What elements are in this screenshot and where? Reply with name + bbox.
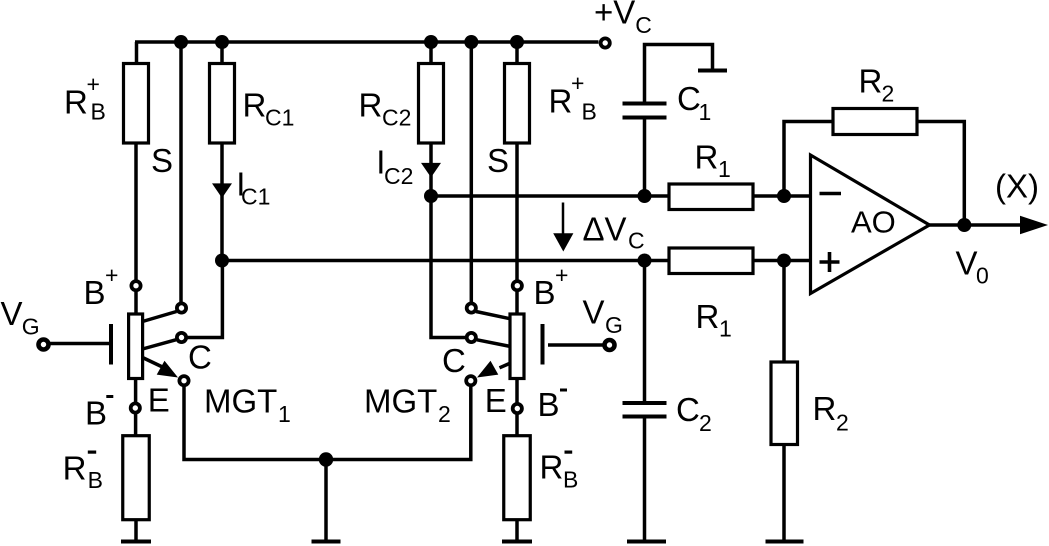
resistor RB+ left [124,64,149,144]
terminal VG left [39,340,49,350]
svg-text:B: B [88,467,103,493]
svg-text:C2: C2 [676,391,712,436]
svg-text:RC1: RC1 [243,87,295,131]
resistor RB+ right [505,64,530,144]
resistor RB- left [123,436,150,520]
ground RB- left [121,540,151,544]
svg-text:E: E [485,382,507,419]
wire MGT2 base minus [515,379,519,436]
wire C1 top to chassis stub [645,45,713,104]
svg-text:C: C [188,339,212,376]
wire R2 lower ground stub [782,445,786,542]
svg-text:R1: R1 [695,139,731,183]
chassis bar at C1 top [698,69,727,73]
wire MGT2 S connector [476,312,523,322]
node output V0 [957,218,971,232]
wire MGT1 S connector [143,312,177,322]
wire RB+ left bottom to MGT1 B+ [134,143,138,314]
pin MGT1 C [177,333,186,342]
wire common emitter ground stub [324,460,328,542]
wire RB+ left drop from rail [135,42,139,64]
wire C1 bottom to minus node [643,118,647,197]
svg-text:B: B [85,395,107,432]
resistor R1 upper [669,184,753,210]
arrow IC2 current [421,163,441,178]
node rail RC1 [215,35,229,49]
node RC2 collector junction [424,189,438,203]
pin MGT1 B+ [131,281,140,290]
arrow IC1 current [212,183,232,198]
wire minus line R1 to op-amp input [753,194,811,198]
svg-text:R: R [64,84,88,121]
resistor R2 feedback [833,109,917,135]
pin MGT2 S [467,303,476,312]
wire plus line node to R1 [222,259,669,263]
svg-text:B: B [84,274,106,311]
arrow MGT2 emitter [477,361,498,378]
wire feedback node up to R2 [784,122,833,197]
wire RB- left ground stub [134,520,138,542]
wire S1 column rail to S terminal [179,42,183,306]
svg-text:E: E [148,382,170,419]
svg-text:V0: V0 [956,245,989,289]
svg-text:RC2: RC2 [359,87,412,131]
svg-text:B: B [534,274,556,311]
svg-text:+: + [87,71,100,97]
arrow output X [1020,216,1048,234]
pin MGT2 E [466,376,475,385]
pin MGT1 E [179,376,188,385]
svg-text:MGT2: MGT2 [364,383,451,428]
wire C2 bottom to ground [643,417,647,542]
svg-text:R: R [63,450,87,487]
wire RC1 bottom to node [220,143,224,261]
svg-text:B: B [538,386,560,423]
resistor R1 lower [669,248,753,274]
wire plus node down to R2 lower [782,261,786,363]
svg-text:B: B [582,99,597,125]
svg-text:VG: VG [583,294,623,339]
svg-text:VG: VG [1,295,40,340]
node C2 plus line [638,254,652,268]
pin MGT2 B+ [513,281,522,290]
transistor MGT2 body [510,314,524,379]
wire MGT2 C connector [477,340,523,349]
transistor MGT1 body [129,314,143,379]
wire VG left gate lead [49,342,110,346]
svg-text:R1: R1 [696,298,732,342]
op-amp U1 AO [811,155,930,294]
svg-text:R2: R2 [813,390,849,436]
wire MGT1 collector link [186,261,222,338]
pin MGT2 C [467,333,476,342]
svg-text:ΔVC: ΔVC [583,211,645,254]
wire minus line node to op-amp [431,194,669,198]
wire RC2 bottom to node [429,143,433,196]
terminal VG right [605,340,615,350]
wire RC1 drop from rail [220,42,224,64]
wire op-amp output [930,223,1023,227]
svg-text:+: + [571,70,584,96]
svg-text:S: S [487,142,509,179]
svg-text:IC1: IC1 [236,166,270,210]
pin MGT2 B- [513,404,522,413]
wire MGT2 collector link [431,196,466,338]
wire MGT1 base minus [134,379,138,436]
node RC1 collector junction [215,254,229,268]
pin MGT1 B- [131,403,140,412]
transistor MGT1 gate bar [109,324,113,365]
arrow MGT1 emitter [157,361,178,378]
svg-text:B: B [563,467,578,493]
ground common emitter [312,540,341,544]
node rail RB+ right [510,35,524,49]
capacitor C2 [623,403,667,417]
wire RB+ right bottom to MGT2 B+ [515,143,519,314]
wire MGT1 C connector [143,340,176,349]
node rail S2 [464,35,478,49]
svg-text:C1: C1 [677,80,711,125]
op-amp minus input sign [820,192,842,196]
wire plus node down to C2 [643,261,647,404]
svg-text:R2: R2 [859,63,895,107]
resistor R2 lower [771,362,798,445]
wire top supply rail [135,40,599,44]
svg-text:AO: AO [851,205,896,240]
resistor RC1 [210,64,235,144]
terminal +VC [601,38,610,47]
svg-text:+: + [555,262,568,288]
pin MGT1 S [177,303,186,312]
wire S2 column rail to S terminal [470,42,474,306]
resistor RC2 [419,64,444,144]
svg-text:MGT1: MGT1 [204,383,291,428]
wire MGT1 E connector [143,358,164,368]
wire RB- right ground stub [515,520,519,542]
wire plus line R1 to op-amp input [753,259,811,263]
wire RC2 drop from rail [429,42,433,64]
wire MGT1 emitter down and common emitter line [184,381,471,460]
capacitor C1 [623,104,667,118]
svg-text:R: R [549,83,573,120]
wire R2 to output column [917,122,964,226]
resistor RB- right [504,436,531,520]
arrow delta VC [562,203,565,237]
svg-text:IC2: IC2 [376,144,413,190]
svg-text:S: S [151,142,173,179]
svg-text:(X): (X) [995,168,1039,205]
svg-text:C: C [442,342,466,379]
ground RB- right [502,540,532,544]
ground R2 lower [766,540,804,544]
node rail RC2 [424,35,438,49]
wire RB+ right drop from rail [515,42,519,64]
node C1 minus line [638,189,652,203]
node common emitter [319,452,333,466]
svg-text:+: + [105,262,118,288]
op-amp plus input sign [820,252,840,272]
ground C2 [627,540,666,544]
node op-amp plus input [777,254,791,268]
node rail S1 [174,35,188,49]
node op-amp minus input [777,189,791,203]
wire VG right gate lead [548,343,603,347]
svg-text:R: R [540,449,564,486]
wire MGT2 E connector [500,358,524,368]
transistor MGT2 gate bar [541,324,545,365]
svg-text:+VC: +VC [594,0,652,38]
svg-text:B: B [91,99,106,125]
